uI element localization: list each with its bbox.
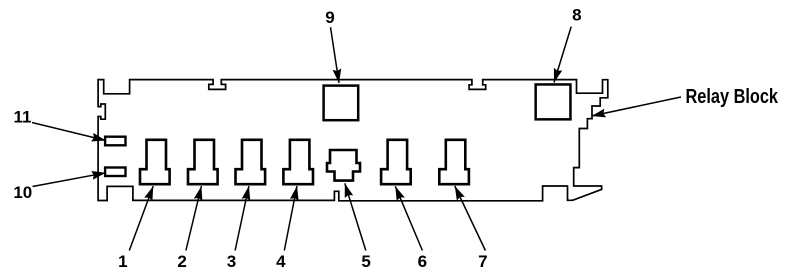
arrow to connector 10 (33, 173, 106, 187)
svg-text:11: 11 (14, 107, 32, 126)
arrow to square 9 (331, 27, 340, 83)
svg-text:3: 3 (227, 252, 236, 271)
svg-text:1: 1 (118, 252, 127, 271)
connector 11 (105, 137, 125, 146)
arrow to relay block (592, 97, 682, 116)
relay 5 (327, 150, 360, 181)
relay 4 (283, 140, 313, 184)
svg-text:2: 2 (177, 252, 186, 271)
svg-text:10: 10 (13, 183, 32, 202)
arrow to relay 6 (395, 186, 422, 250)
square 9 (324, 86, 359, 121)
arrow to relay 2 (186, 186, 202, 250)
svg-text:5: 5 (361, 252, 370, 271)
connector 10 (105, 168, 125, 177)
arrow to square 8 (554, 27, 571, 83)
svg-text:8: 8 (572, 6, 581, 25)
arrow to relay 4 (284, 186, 297, 251)
relay 1 (140, 140, 170, 184)
svg-text:6: 6 (418, 252, 427, 271)
svg-text:7: 7 (478, 252, 487, 271)
relay 2 (188, 140, 218, 184)
relay 3 (236, 140, 266, 184)
svg-text:4: 4 (276, 252, 286, 271)
svg-text:9: 9 (325, 8, 334, 27)
relay block outline (98, 80, 608, 201)
arrow to relay 5 (345, 183, 366, 250)
arrow to relay 7 (455, 186, 486, 251)
svg-text:Relay Block: Relay Block (686, 86, 779, 108)
relay 6 (381, 140, 411, 184)
relay 7 (439, 140, 469, 184)
arrow to relay 3 (235, 186, 249, 251)
arrow to relay 1 (129, 186, 153, 250)
square 8 (536, 84, 571, 119)
arrow to connector 11 (32, 123, 106, 141)
